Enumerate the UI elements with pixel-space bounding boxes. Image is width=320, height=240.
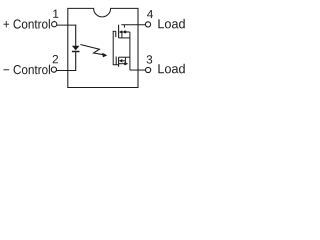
MOSFET Q1 source dash xyxy=(119,37,130,39)
MOSFET Q2 (bottom) source dash xyxy=(119,56,130,58)
wire pin4 to MOSFET drain (top): wire, corner, riser, drain dash xyxy=(121,24,145,26)
MOSFET Q2 body arrow head xyxy=(119,59,122,63)
MOSFET Q1 (top) gate bar xyxy=(115,31,117,37)
MOSFET Q1 channel bar xyxy=(118,25,120,38)
MOSFET Q2 junction dot xyxy=(124,62,127,65)
wire pin1 to LED anode xyxy=(57,24,76,26)
MOSFET Q2 channel bar xyxy=(118,57,120,67)
common source rail xyxy=(129,32,131,70)
text Load top xyxy=(158,19,164,28)
LED D1 cathode bar xyxy=(72,51,80,53)
text pin number 1 xyxy=(53,10,58,18)
terminal pin 3 xyxy=(146,67,151,72)
text pin number 3 xyxy=(147,55,153,63)
LED D1 cathode wire xyxy=(75,52,77,71)
text + Control xyxy=(3,21,9,27)
package outline U1 (DIP with notch) xyxy=(68,8,138,87)
gate lead top MOSFET xyxy=(113,30,116,32)
MOSFET Q1 junction dot xyxy=(124,31,127,34)
wire pin3 to common node xyxy=(130,69,145,71)
MOSFET Q2 source bar xyxy=(124,57,126,64)
text - Control xyxy=(3,68,9,71)
MOSFET Q2 drain dash xyxy=(119,63,128,65)
photon zigzag arrow xyxy=(80,45,103,55)
MOSFET Q2 body arrow tail xyxy=(121,60,125,62)
text pin number 2 xyxy=(53,55,58,63)
photon arrow head xyxy=(102,53,107,58)
LED D1 anode wire xyxy=(75,25,77,46)
text pin number 4 xyxy=(147,10,153,18)
terminal pin 2 xyxy=(51,67,56,72)
wire pin2 to LED cathode xyxy=(56,70,76,72)
MOSFET Q2 gate bar xyxy=(115,57,117,65)
MOSFET Q1 source bar xyxy=(121,32,123,38)
MOSFET Q1 body arrow head xyxy=(119,30,122,34)
gate interconnect wire (with bottom gate lead corner) xyxy=(113,31,119,65)
terminal pin 4 xyxy=(145,22,150,27)
terminal pin 1 xyxy=(52,22,57,27)
drain stub (top) xyxy=(123,25,125,28)
MOSFET Q1 body arrow tail to common rail xyxy=(121,31,130,33)
text Load bottom xyxy=(158,64,164,73)
LED D1 triangle xyxy=(72,46,80,51)
